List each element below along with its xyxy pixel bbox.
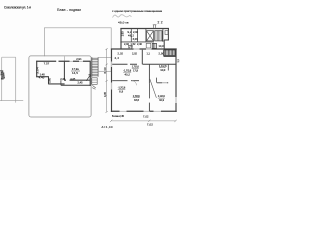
svg-text:14,5: 14,5	[72, 71, 78, 75]
svg-text:10,3: 10,3	[159, 98, 164, 102]
label 49,0 кв	[118, 20, 129, 24]
upper section interior bottom wall	[120, 41, 154, 43]
svg-text:4,45: 4,45	[70, 77, 76, 81]
terrace boundary	[29, 56, 91, 117]
small box with П	[146, 43, 156, 48]
svg-text:7,02: 7,02	[143, 114, 149, 118]
room texts middle plan	[36, 57, 83, 84]
room label L3	[159, 65, 167, 72]
svg-text:2,02: 2,02	[118, 52, 124, 56]
svg-text:4.40: 4.40	[39, 76, 45, 80]
svg-text:2,45: 2,45	[60, 77, 65, 81]
svg-text:17,9: 17,9	[133, 68, 138, 72]
left elevation base line	[0, 100, 23, 102]
title text top-left	[4, 6, 31, 10]
dark stamp blob	[0, 71, 4, 79]
svg-text:1,1: 1,1	[147, 52, 151, 56]
svg-text:7.57: 7.57	[44, 62, 50, 66]
right rotated dim text	[177, 59, 180, 63]
upper texts	[121, 30, 164, 49]
interior vertical wall 1	[141, 50, 143, 65]
title text top-right	[112, 9, 162, 13]
small fixture upper right	[165, 31, 168, 35]
small label 4,2	[115, 56, 120, 60]
svg-text:2,02: 2,02	[132, 52, 138, 56]
svg-text:18,6: 18,6	[134, 98, 139, 102]
main left wall	[111, 49, 113, 113]
entrance arrow	[86, 75, 90, 81]
svg-text:Соколовская ул. 1-я: Соколовская ул. 1-я	[4, 6, 31, 10]
svg-text:4,05: 4,05	[103, 91, 107, 97]
small marks below porch	[92, 85, 96, 89]
svg-text:2,90: 2,90	[159, 51, 165, 55]
svg-text:40,2: 40,2	[125, 72, 131, 76]
svg-text:1.90: 1.90	[121, 31, 125, 37]
chimney upper	[153, 25, 157, 28]
main right wall	[175, 49, 177, 113]
main top wall	[111, 48, 177, 50]
svg-text:6,40: 6,40	[103, 67, 107, 74]
svg-text:План - подвал: План - подвал	[57, 8, 81, 12]
chimney main	[128, 45, 132, 49]
svg-text:2,40: 2,40	[137, 42, 143, 46]
paper background	[0, 0, 180, 180]
main bottom wall	[111, 110, 177, 112]
bottom dimension line	[110, 120, 177, 127]
svg-text:8,9: 8,9	[119, 89, 124, 93]
upper staircase hatch	[155, 31, 163, 41]
svg-text:10,3: 10,3	[160, 68, 165, 72]
stair landing lines	[98, 57, 111, 71]
partition wall right	[167, 64, 169, 70]
X-box shaft	[147, 31, 154, 41]
title text top-center	[57, 8, 81, 12]
building walls middle plan	[36, 56, 90, 86]
svg-text:-1,7/2,6: -1,7/2,6	[118, 86, 126, 89]
svg-text:с одним пристроенным помещение: с одним пристроенным помещением	[112, 9, 162, 13]
door arc	[132, 81, 137, 86]
main interior horizontal wall	[112, 63, 176, 65]
room label L6	[118, 86, 126, 93]
porch box with steps	[92, 78, 97, 85]
interior vertical wall 2 with door	[149, 64, 156, 111]
main top wall windows	[134, 48, 152, 50]
connector line	[44, 28, 111, 72]
bathroom horizontal wall	[157, 82, 168, 84]
svg-text:22: 22	[158, 20, 163, 24]
left elevation outline	[2, 57, 16, 102]
room label L2	[132, 66, 140, 73]
dark staircase main top right	[164, 50, 176, 57]
room label L1	[123, 69, 132, 76]
window dimension texts	[118, 51, 165, 55]
svg-text:2,02: 2,02	[133, 30, 139, 34]
staircase middle plan	[92, 57, 98, 77]
svg-text:3,06: 3,06	[133, 38, 139, 41]
upper section left wall	[120, 28, 122, 49]
room label L4	[133, 95, 141, 102]
svg-text:10,3: 10,3	[159, 44, 165, 48]
room label L5	[158, 95, 166, 102]
svg-text:9,2: 9,2	[128, 30, 133, 34]
svg-text:A=1,40: A=1,40	[102, 125, 114, 129]
svg-text:49,0 кв: 49,0 кв	[118, 20, 129, 24]
svg-text:7,02: 7,02	[147, 123, 153, 127]
bottom annotation texts	[102, 114, 150, 129]
svg-text:0.60: 0.60	[48, 77, 52, 83]
left dimension line	[103, 48, 108, 113]
pencil scribble	[113, 15, 132, 18]
upper interior partitions	[131, 29, 163, 42]
svg-text:2,45: 2,45	[78, 80, 84, 84]
svg-text:4,2: 4,2	[115, 56, 120, 60]
svg-text:46,2: 46,2	[128, 34, 135, 38]
upper section right wall	[164, 28, 169, 49]
svg-text:2.91: 2.91	[76, 57, 82, 61]
svg-text:Б.саж-2,45: Б.саж-2,45	[112, 114, 125, 118]
upper section top wall	[120, 28, 169, 30]
label 22	[158, 20, 163, 24]
left rooms horizontal wall	[112, 80, 139, 82]
